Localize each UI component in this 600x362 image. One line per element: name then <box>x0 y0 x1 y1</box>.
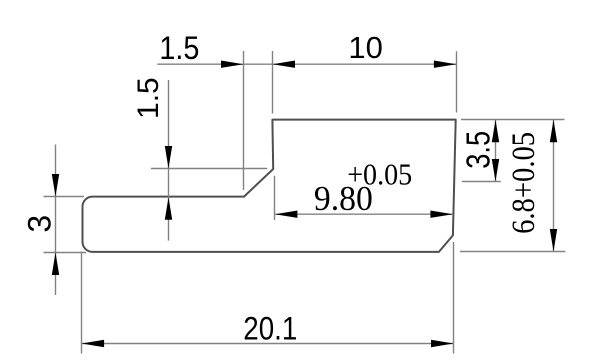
arrow at x=274.9 pointing left (dim 9.80) <box>275 211 298 218</box>
extension line y=181.9 (dim 3.5 bottom) <box>462 181 501 183</box>
svg-text:3: 3 <box>22 215 58 233</box>
extension line x=272.3 (top dim shared) <box>272 51 274 114</box>
dim 6.8+0.05 vertical dimension line (right) <box>553 120 555 252</box>
arrow at y=196.6 pointing down (dim 3) <box>52 174 59 197</box>
svg-text:+0.05: +0.05 <box>347 158 412 192</box>
svg-text:10: 10 <box>348 30 382 65</box>
extension line y=252.8 (dim 3 bottom) <box>44 252 87 254</box>
extension line x=274.4 (dim 9.80 left) <box>274 176 276 220</box>
arrow at y=197 pointing up (vert dim 1.5) <box>165 197 172 220</box>
arrow at y=181.8 pointing down (dim 3.5) <box>492 159 499 182</box>
dim 1.5/10 horizontal dimension line (top) <box>157 63 456 65</box>
dim 20.1 horizontal dimension line (bottom) <box>82 343 454 345</box>
arrow at y=120 pointing up (dim 3.5) <box>492 120 499 143</box>
extension line y=119.7 (right top, shared 3.5/6.8) <box>461 119 564 121</box>
extension line y=168.6 (vert dim 1.5 top) <box>151 168 267 170</box>
arrow at x=452.7 pointing right (dim 9.80) <box>430 211 453 218</box>
extension line x=453.4 (dim 20.1 right) <box>453 242 455 354</box>
dim 3.5 vertical dimension line (right) <box>495 120 497 182</box>
svg-text:20.1: 20.1 <box>243 310 297 346</box>
arrow at 272.3 pointing left (dim 10 left) <box>273 61 296 68</box>
extension line x=456.4 (top dim 10 right) <box>456 51 458 112</box>
arrow at y=251.5 pointing down (dim 6.8) <box>550 229 557 252</box>
extension line x=244 (top dim 1.5 left) <box>243 51 245 190</box>
extension line x=84.5 (dim 20.1 left) <box>81 252 83 354</box>
dim 9.80 horizontal dimension line <box>276 213 453 215</box>
arrow at 456.2 pointing right (dim 10 right) <box>434 61 457 68</box>
svg-text:3.5: 3.5 <box>459 131 496 169</box>
dim 1.5 vertical dimension line <box>168 80 170 241</box>
arrow at x=84.5 pointing left (dim 20.1) <box>82 340 105 347</box>
part outline (stepped profile with chamfers and rounded left end) <box>83 120 456 252</box>
arrow at y=168.8 pointing down (vert dim 1.5) <box>165 146 172 169</box>
arrow at 244 pointing right (dim 1.5 top) <box>221 61 244 68</box>
extension line y=196.6 (dim 3 top) <box>44 196 85 198</box>
arrow at y=120 pointing up (dim 6.8) <box>550 120 557 143</box>
svg-text:1.5: 1.5 <box>159 30 199 66</box>
dim 3 vertical dimension line (left) <box>55 145 57 296</box>
svg-text:6.8+0.05: 6.8+0.05 <box>506 132 542 234</box>
svg-text:1.5: 1.5 <box>132 77 165 119</box>
arrow at y=252.8 pointing up (dim 3) <box>52 253 59 276</box>
arrow at x=454.2 pointing right (dim 20.1) <box>431 340 454 347</box>
extension line y=251.8 (dim 6.8 bottom) <box>460 251 565 253</box>
